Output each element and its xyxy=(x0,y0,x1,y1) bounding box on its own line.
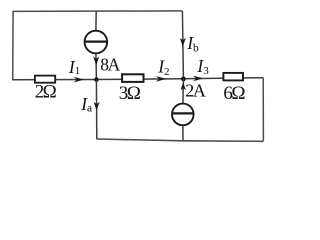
resistor R2 3ohm xyxy=(122,74,143,82)
wire vertical branch 1 upper xyxy=(95,11,97,31)
svg-text:I3: I3 xyxy=(196,56,209,77)
arrow I1 right xyxy=(74,77,84,83)
svg-text:3Ω: 3Ω xyxy=(119,83,141,104)
arrow Ia down xyxy=(94,102,100,111)
arrow 2A up xyxy=(181,82,186,90)
svg-text:2A: 2A xyxy=(185,80,206,100)
wire left xyxy=(12,11,14,81)
arrow Ib down xyxy=(180,38,186,47)
wire vertical branch 1 middle xyxy=(95,53,98,79)
wire vertical branch 2 middle xyxy=(182,79,185,104)
wire bottom xyxy=(97,139,264,141)
wire vertical branch 1 lower xyxy=(95,80,97,140)
svg-text:I2: I2 xyxy=(157,56,169,78)
arrow I3 right xyxy=(193,76,203,82)
wire vertical branch 2 upper xyxy=(182,11,183,79)
wire right xyxy=(262,78,264,142)
svg-text:I1: I1 xyxy=(68,57,80,77)
arrow 8A down xyxy=(93,57,99,66)
arrow I2 right xyxy=(156,76,166,82)
svg-text:Ib: Ib xyxy=(186,33,199,54)
wire top xyxy=(13,10,182,13)
resistor R3 6ohm xyxy=(223,73,243,81)
node junction 1 xyxy=(94,77,99,82)
node junction 2 xyxy=(181,77,186,82)
svg-text:2Ω: 2Ω xyxy=(35,82,57,103)
wire middle (node row) xyxy=(13,78,264,80)
current source 8A xyxy=(85,31,108,54)
svg-text:Ia: Ia xyxy=(80,94,92,115)
resistor R1 2ohm xyxy=(35,76,55,83)
svg-text:8A: 8A xyxy=(100,54,120,74)
wire vertical branch 2 lower xyxy=(182,125,184,141)
current source 2A xyxy=(172,104,194,126)
svg-text:6Ω: 6Ω xyxy=(223,83,245,104)
